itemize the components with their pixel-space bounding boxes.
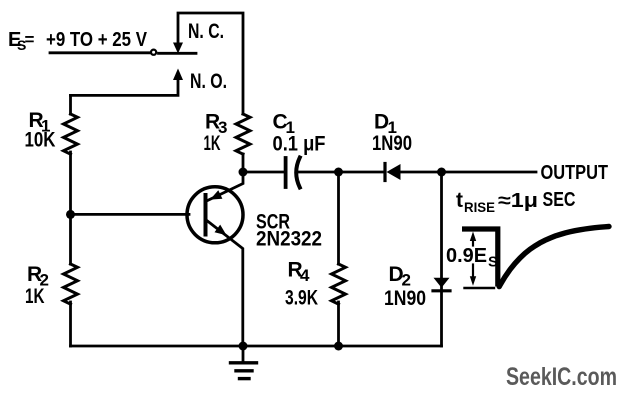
svg-text:S: S bbox=[488, 254, 498, 271]
svg-text:≈1μ: ≈1μ bbox=[498, 190, 538, 212]
svg-text:=: = bbox=[25, 30, 35, 49]
svg-text:2N2322: 2N2322 bbox=[256, 228, 322, 251]
svg-text:RISE: RISE bbox=[464, 199, 495, 215]
svg-text:+9 TO + 25 V: +9 TO + 25 V bbox=[46, 29, 148, 51]
svg-text:OUTPUT: OUTPUT bbox=[541, 162, 609, 184]
svg-text:1N90: 1N90 bbox=[372, 132, 412, 155]
svg-text:0.1 μF: 0.1 μF bbox=[273, 133, 326, 156]
svg-text:1K: 1K bbox=[204, 132, 221, 155]
svg-text:N. C.: N. C. bbox=[188, 20, 224, 43]
svg-text:10K: 10K bbox=[25, 129, 56, 152]
svg-text:1K: 1K bbox=[25, 285, 45, 308]
svg-text:SEC: SEC bbox=[543, 189, 576, 211]
svg-text:4: 4 bbox=[300, 266, 310, 285]
svg-text:3.9K: 3.9K bbox=[285, 287, 318, 310]
svg-text:N. O.: N. O. bbox=[190, 70, 227, 93]
svg-text:1N90: 1N90 bbox=[384, 287, 426, 310]
svg-text:t: t bbox=[456, 189, 463, 212]
svg-text:0.9E: 0.9E bbox=[446, 245, 487, 267]
svg-text:SeekIC.com: SeekIC.com bbox=[506, 363, 617, 391]
